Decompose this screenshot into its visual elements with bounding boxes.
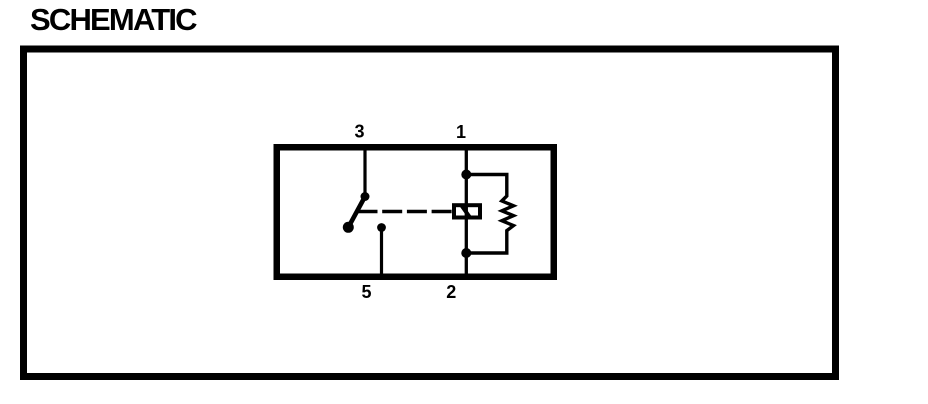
- armature diagonal slash: [462, 206, 471, 218]
- svg-text:1: 1: [456, 122, 466, 142]
- switch arm tip blob: [343, 222, 354, 233]
- wire pin 3 lead: [363, 150, 366, 197]
- wire pin 5 lead: [380, 228, 383, 275]
- switch movable arm: [349, 198, 365, 227]
- svg-text:3: 3: [354, 121, 364, 141]
- junction node top (pin 1 / coil): [461, 170, 471, 180]
- title text "SCHEMATIC": [30, 3, 196, 37]
- svg-text:2: 2: [446, 282, 456, 302]
- coil L1 branch with zigzag winding: [466, 175, 513, 254]
- armature actuator box: [454, 205, 480, 217]
- node pin 5 fixed contact: [377, 223, 386, 232]
- relay K1 body outline: [277, 147, 554, 277]
- junction node bottom (pin 2 / coil): [461, 248, 471, 258]
- svg-text:5: 5: [361, 282, 371, 302]
- wire pin 1 to pin 2 lead: [465, 150, 468, 274]
- node switch pivot (common contact): [361, 192, 370, 201]
- dashed mechanical linkage: [358, 210, 453, 213]
